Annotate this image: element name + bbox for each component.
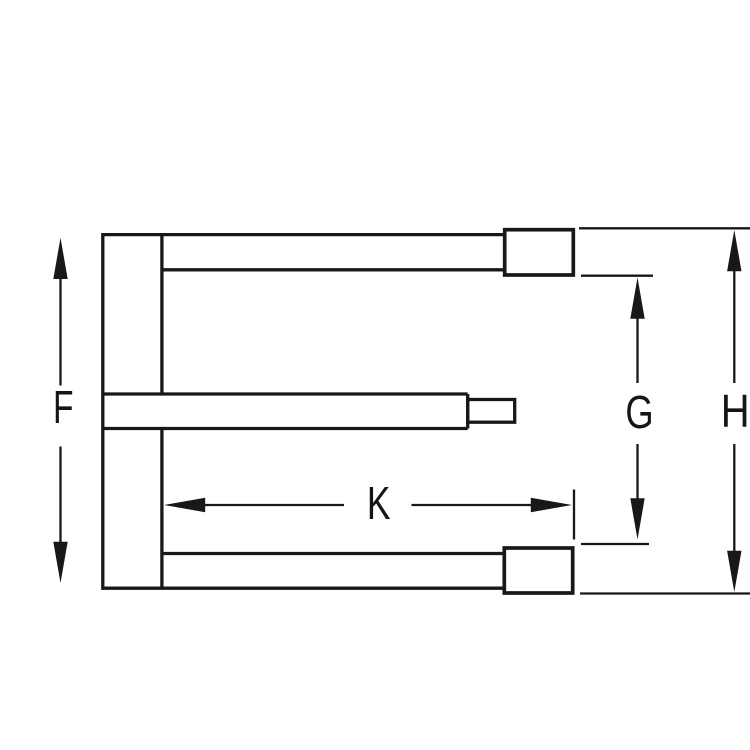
svg-text:K: K (367, 478, 391, 530)
arrowhead F up (53, 238, 67, 279)
body top edge / top arm top line (103, 233, 505, 236)
dimension F line lower segment (59, 447, 61, 546)
dimension K line left segment (202, 504, 344, 506)
body divider upper segment (160, 235, 163, 394)
arrowhead G down (630, 498, 644, 539)
svg-text:H: H (721, 386, 750, 437)
middle arm top line (103, 392, 468, 395)
dimension G extension line bottom (581, 543, 649, 545)
middle arm bottom line (103, 427, 468, 430)
svg-text:F: F (53, 382, 74, 433)
middle arm tip (468, 400, 515, 423)
dimension H extension line bottom (580, 592, 750, 594)
dimension F line upper segment (59, 276, 61, 386)
dimension G line upper segment (636, 315, 638, 383)
body divider lower segment (160, 429, 163, 589)
body left edge (101, 233, 104, 590)
arrowhead H down (727, 551, 741, 592)
dimension H extension line top (579, 227, 750, 229)
arrowhead F down (53, 542, 67, 583)
dimension H line upper segment (733, 268, 735, 383)
top block (505, 230, 574, 275)
bottom arm top line (162, 552, 504, 555)
dimension K line right segment (412, 504, 534, 506)
body bottom edge / bottom arm bottom line (103, 587, 505, 590)
arrowhead G up (630, 278, 644, 319)
dimension H line lower segment (733, 444, 735, 554)
middle arm right edge (466, 394, 469, 429)
top arm bottom line (162, 268, 505, 271)
arrowhead K left (164, 498, 205, 512)
dimension G line lower segment (636, 444, 638, 501)
bottom block (504, 548, 572, 593)
dimension K extension line right (573, 490, 575, 540)
dimension G extension line top (581, 275, 653, 277)
svg-text:G: G (625, 386, 653, 438)
arrowhead K right (531, 498, 572, 512)
arrowhead H up (727, 230, 741, 271)
